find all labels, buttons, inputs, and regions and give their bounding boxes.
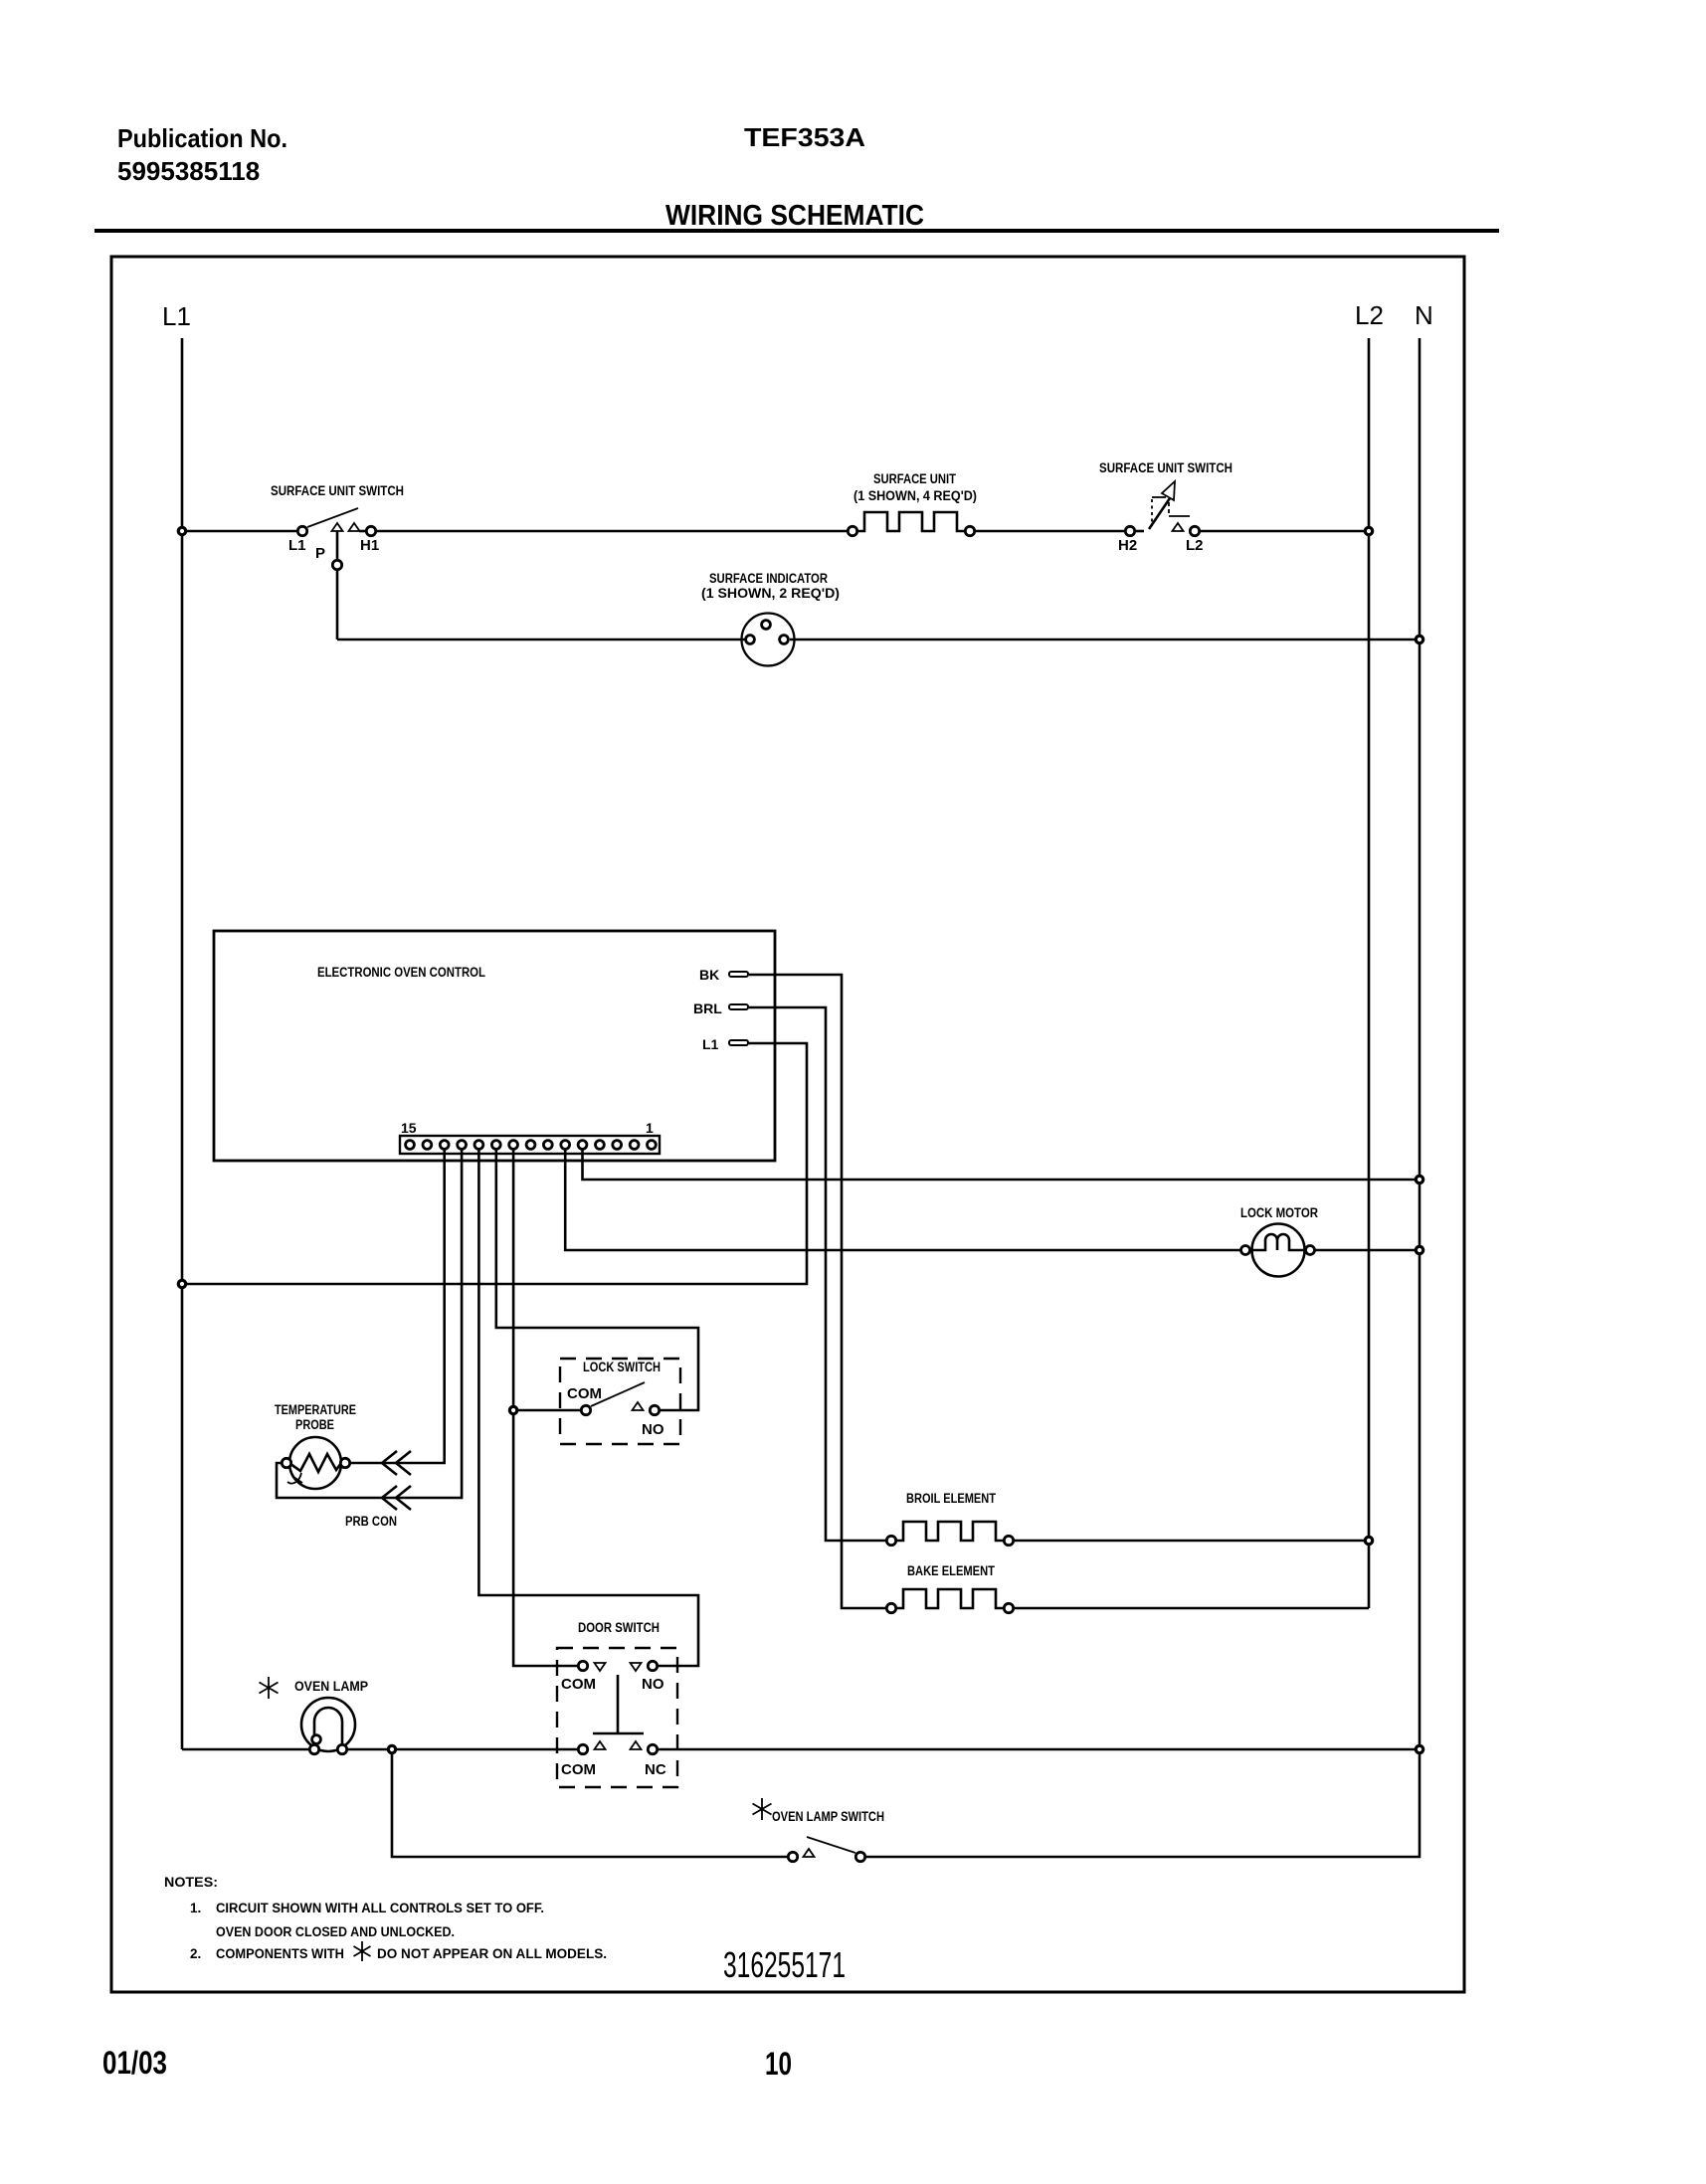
terminal BRL <box>693 1001 748 1016</box>
wire EOC L1 to L1 bus <box>187 1043 807 1284</box>
svg-text:COM: COM <box>567 1385 602 1402</box>
terminal BK <box>699 967 748 983</box>
wire broil element to L2 <box>1015 1540 1364 1543</box>
svg-text:01/03: 01/03 <box>102 2045 167 2081</box>
svg-text:BRL: BRL <box>693 1001 722 1016</box>
svg-text:COMPONENTS WITH: COMPONENTS WITH <box>216 1946 344 1961</box>
svg-text:PROBE: PROBE <box>295 1417 334 1432</box>
svg-text:NC: NC <box>645 1761 666 1778</box>
svg-text:PRB CON: PRB CON <box>345 1514 397 1529</box>
heating element BAKE ELEMENT <box>886 1563 1013 1613</box>
svg-text:NO: NO <box>642 1676 664 1693</box>
svg-text:SURFACE UNIT SWITCH: SURFACE UNIT SWITCH <box>1099 460 1232 475</box>
junction N / pin5 wire <box>1416 1176 1422 1183</box>
svg-text:DOOR SWITCH: DOOR SWITCH <box>578 1620 660 1635</box>
asterisk note 2 <box>354 1941 371 1961</box>
wire L1 bus <box>181 338 184 1749</box>
switch SURFACE UNIT SWITCH (left) <box>271 483 404 570</box>
wire junction to door switch COM <box>397 1748 577 1751</box>
svg-text:LOCK MOTOR: LOCK MOTOR <box>1240 1205 1318 1220</box>
wire oven lamp to junction <box>348 1748 387 1751</box>
wire L1 bottom to oven lamp <box>182 1748 308 1751</box>
svg-text:L1: L1 <box>702 1036 719 1052</box>
svg-text:CIRCUIT SHOWN WITH ALL CONTROL: CIRCUIT SHOWN WITH ALL CONTROLS SET TO O… <box>216 1901 544 1915</box>
connector strip P1 pins 15..1 <box>400 1120 660 1154</box>
motor LOCK MOTOR <box>1240 1205 1318 1277</box>
resistor TEMPERATURE PROBE <box>275 1402 397 1529</box>
svg-text:1.: 1. <box>190 1901 201 1915</box>
svg-text:ELECTRONIC OVEN CONTROL: ELECTRONIC OVEN CONTROL <box>317 965 485 980</box>
wire pin5 to N bus <box>583 1150 1416 1180</box>
wire door switch NC to N bus <box>659 1748 1415 1751</box>
svg-text:SURFACE INDICATOR: SURFACE INDICATOR <box>709 571 828 586</box>
wire lock motor to N <box>1315 1249 1415 1252</box>
lamp OVEN LAMP <box>260 1677 369 1754</box>
svg-text:L1: L1 <box>288 537 306 554</box>
svg-text:LOCK SWITCH: LOCK SWITCH <box>583 1360 661 1374</box>
junction lock switch COM branch <box>509 1406 516 1413</box>
wire N bus <box>1419 338 1422 1749</box>
wire pin13 to temperature probe <box>351 1150 445 1463</box>
asterisk oven lamp switch <box>753 1798 772 1820</box>
wire L1 to surface unit switch <box>187 530 296 533</box>
svg-text:WIRING SCHEMATIC: WIRING SCHEMATIC <box>665 200 924 232</box>
svg-text:SURFACE UNIT: SURFACE UNIT <box>873 471 957 486</box>
junction L2 / broil <box>1365 1537 1372 1544</box>
svg-text:COM: COM <box>561 1676 596 1693</box>
junction oven lamp switch branch <box>388 1745 395 1752</box>
wire pin9 to door switch COM <box>513 1150 577 1666</box>
wire BK to bake element <box>749 975 885 1608</box>
header text Publication No. <box>117 123 287 186</box>
svg-text:OVEN DOOR CLOSED AND UNLOCKED.: OVEN DOOR CLOSED AND UNLOCKED. <box>216 1924 455 1939</box>
switch OVEN LAMP SWITCH <box>753 1798 885 1862</box>
junction L1 / surface unit switch <box>178 527 185 534</box>
svg-text:COM: COM <box>561 1761 596 1778</box>
wire switch L2 terminal to L2 bus <box>1201 530 1364 533</box>
svg-text:H2: H2 <box>1118 537 1137 554</box>
svg-text:OVEN LAMP: OVEN LAMP <box>294 1679 368 1694</box>
junction N / indicator <box>1416 636 1422 642</box>
wire P to indicator <box>337 638 745 641</box>
heating element SURFACE UNIT <box>848 471 977 536</box>
svg-text:P: P <box>315 545 325 562</box>
junction N / lock motor <box>1416 1246 1422 1253</box>
switch SURFACE UNIT SWITCH (right) <box>1099 460 1232 554</box>
schematic border frame <box>111 257 1464 1992</box>
svg-text:Publication No.: Publication No. <box>117 123 287 153</box>
terminal P <box>332 560 341 569</box>
svg-text:OVEN LAMP SWITCH: OVEN LAMP SWITCH <box>772 1809 884 1824</box>
wire surface unit to switch H2 <box>976 530 1124 533</box>
wire L2 bus <box>1368 338 1371 1608</box>
switch LOCK SWITCH <box>560 1359 680 1444</box>
wire P drop <box>336 571 339 639</box>
svg-text:BAKE ELEMENT: BAKE ELEMENT <box>907 1563 996 1578</box>
wire junction drop to oven lamp switch <box>392 1754 787 1857</box>
svg-text:5995385118: 5995385118 <box>117 156 260 186</box>
svg-text:BK: BK <box>699 967 719 983</box>
svg-text:L2: L2 <box>1186 537 1204 554</box>
svg-text:(1 SHOWN, 2 REQ'D): (1 SHOWN, 2 REQ'D) <box>701 586 840 601</box>
wire pin12 to probe return <box>277 1150 462 1498</box>
svg-text:L1: L1 <box>162 301 191 331</box>
svg-text:N: N <box>1415 300 1433 330</box>
svg-text:316255171: 316255171 <box>723 1944 846 1985</box>
asterisk oven lamp <box>260 1677 279 1699</box>
svg-text:(1 SHOWN, 4 REQ'D): (1 SHOWN, 4 REQ'D) <box>853 488 977 503</box>
svg-text:BROIL ELEMENT: BROIL ELEMENT <box>906 1491 997 1506</box>
junction L1 / EOC L1 wire <box>178 1280 185 1287</box>
connector chevrons PRB CON <box>382 1451 411 1510</box>
svg-text:1: 1 <box>646 1120 654 1136</box>
wire bake element to L2 <box>1015 1607 1369 1610</box>
svg-text:NOTES:: NOTES: <box>164 1875 218 1890</box>
svg-text:TEF353A: TEF353A <box>744 122 865 152</box>
wire pin10 to lock switch NO <box>496 1150 698 1410</box>
wire H1 to surface unit <box>377 530 847 533</box>
svg-text:SURFACE UNIT SWITCH: SURFACE UNIT SWITCH <box>271 483 404 498</box>
wire pin6 to lock motor <box>565 1150 1240 1250</box>
svg-text:10: 10 <box>765 2046 792 2082</box>
svg-text:DO NOT APPEAR ON ALL MODELS.: DO NOT APPEAR ON ALL MODELS. <box>377 1946 607 1961</box>
junction N / door switch NC wire <box>1416 1745 1422 1752</box>
title underline <box>95 229 1499 233</box>
heating element BROIL ELEMENT <box>886 1491 1013 1546</box>
svg-text:15: 15 <box>401 1120 417 1136</box>
notes block <box>164 1875 607 1961</box>
lamp SURFACE INDICATOR <box>701 571 840 666</box>
wire pin11 to door switch NO <box>478 1150 698 1666</box>
terminal L1 (EOC) <box>702 1036 748 1052</box>
box ELECTRONIC OVEN CONTROL U1 <box>214 931 775 1161</box>
svg-text:L2: L2 <box>1355 300 1384 330</box>
junction L2 top <box>1365 527 1372 534</box>
wire BRL to broil element <box>749 1007 885 1541</box>
svg-text:H1: H1 <box>360 537 379 554</box>
svg-text:NO: NO <box>642 1421 664 1438</box>
svg-text:TEMPERATURE: TEMPERATURE <box>275 1402 356 1417</box>
wire indicator to N <box>790 638 1415 641</box>
switch DOOR SWITCH <box>557 1620 677 1787</box>
svg-text:2.: 2. <box>190 1946 201 1961</box>
wire oven lamp switch to N bus <box>866 1754 1420 1857</box>
wire junction to lock switch COM <box>518 1409 580 1412</box>
